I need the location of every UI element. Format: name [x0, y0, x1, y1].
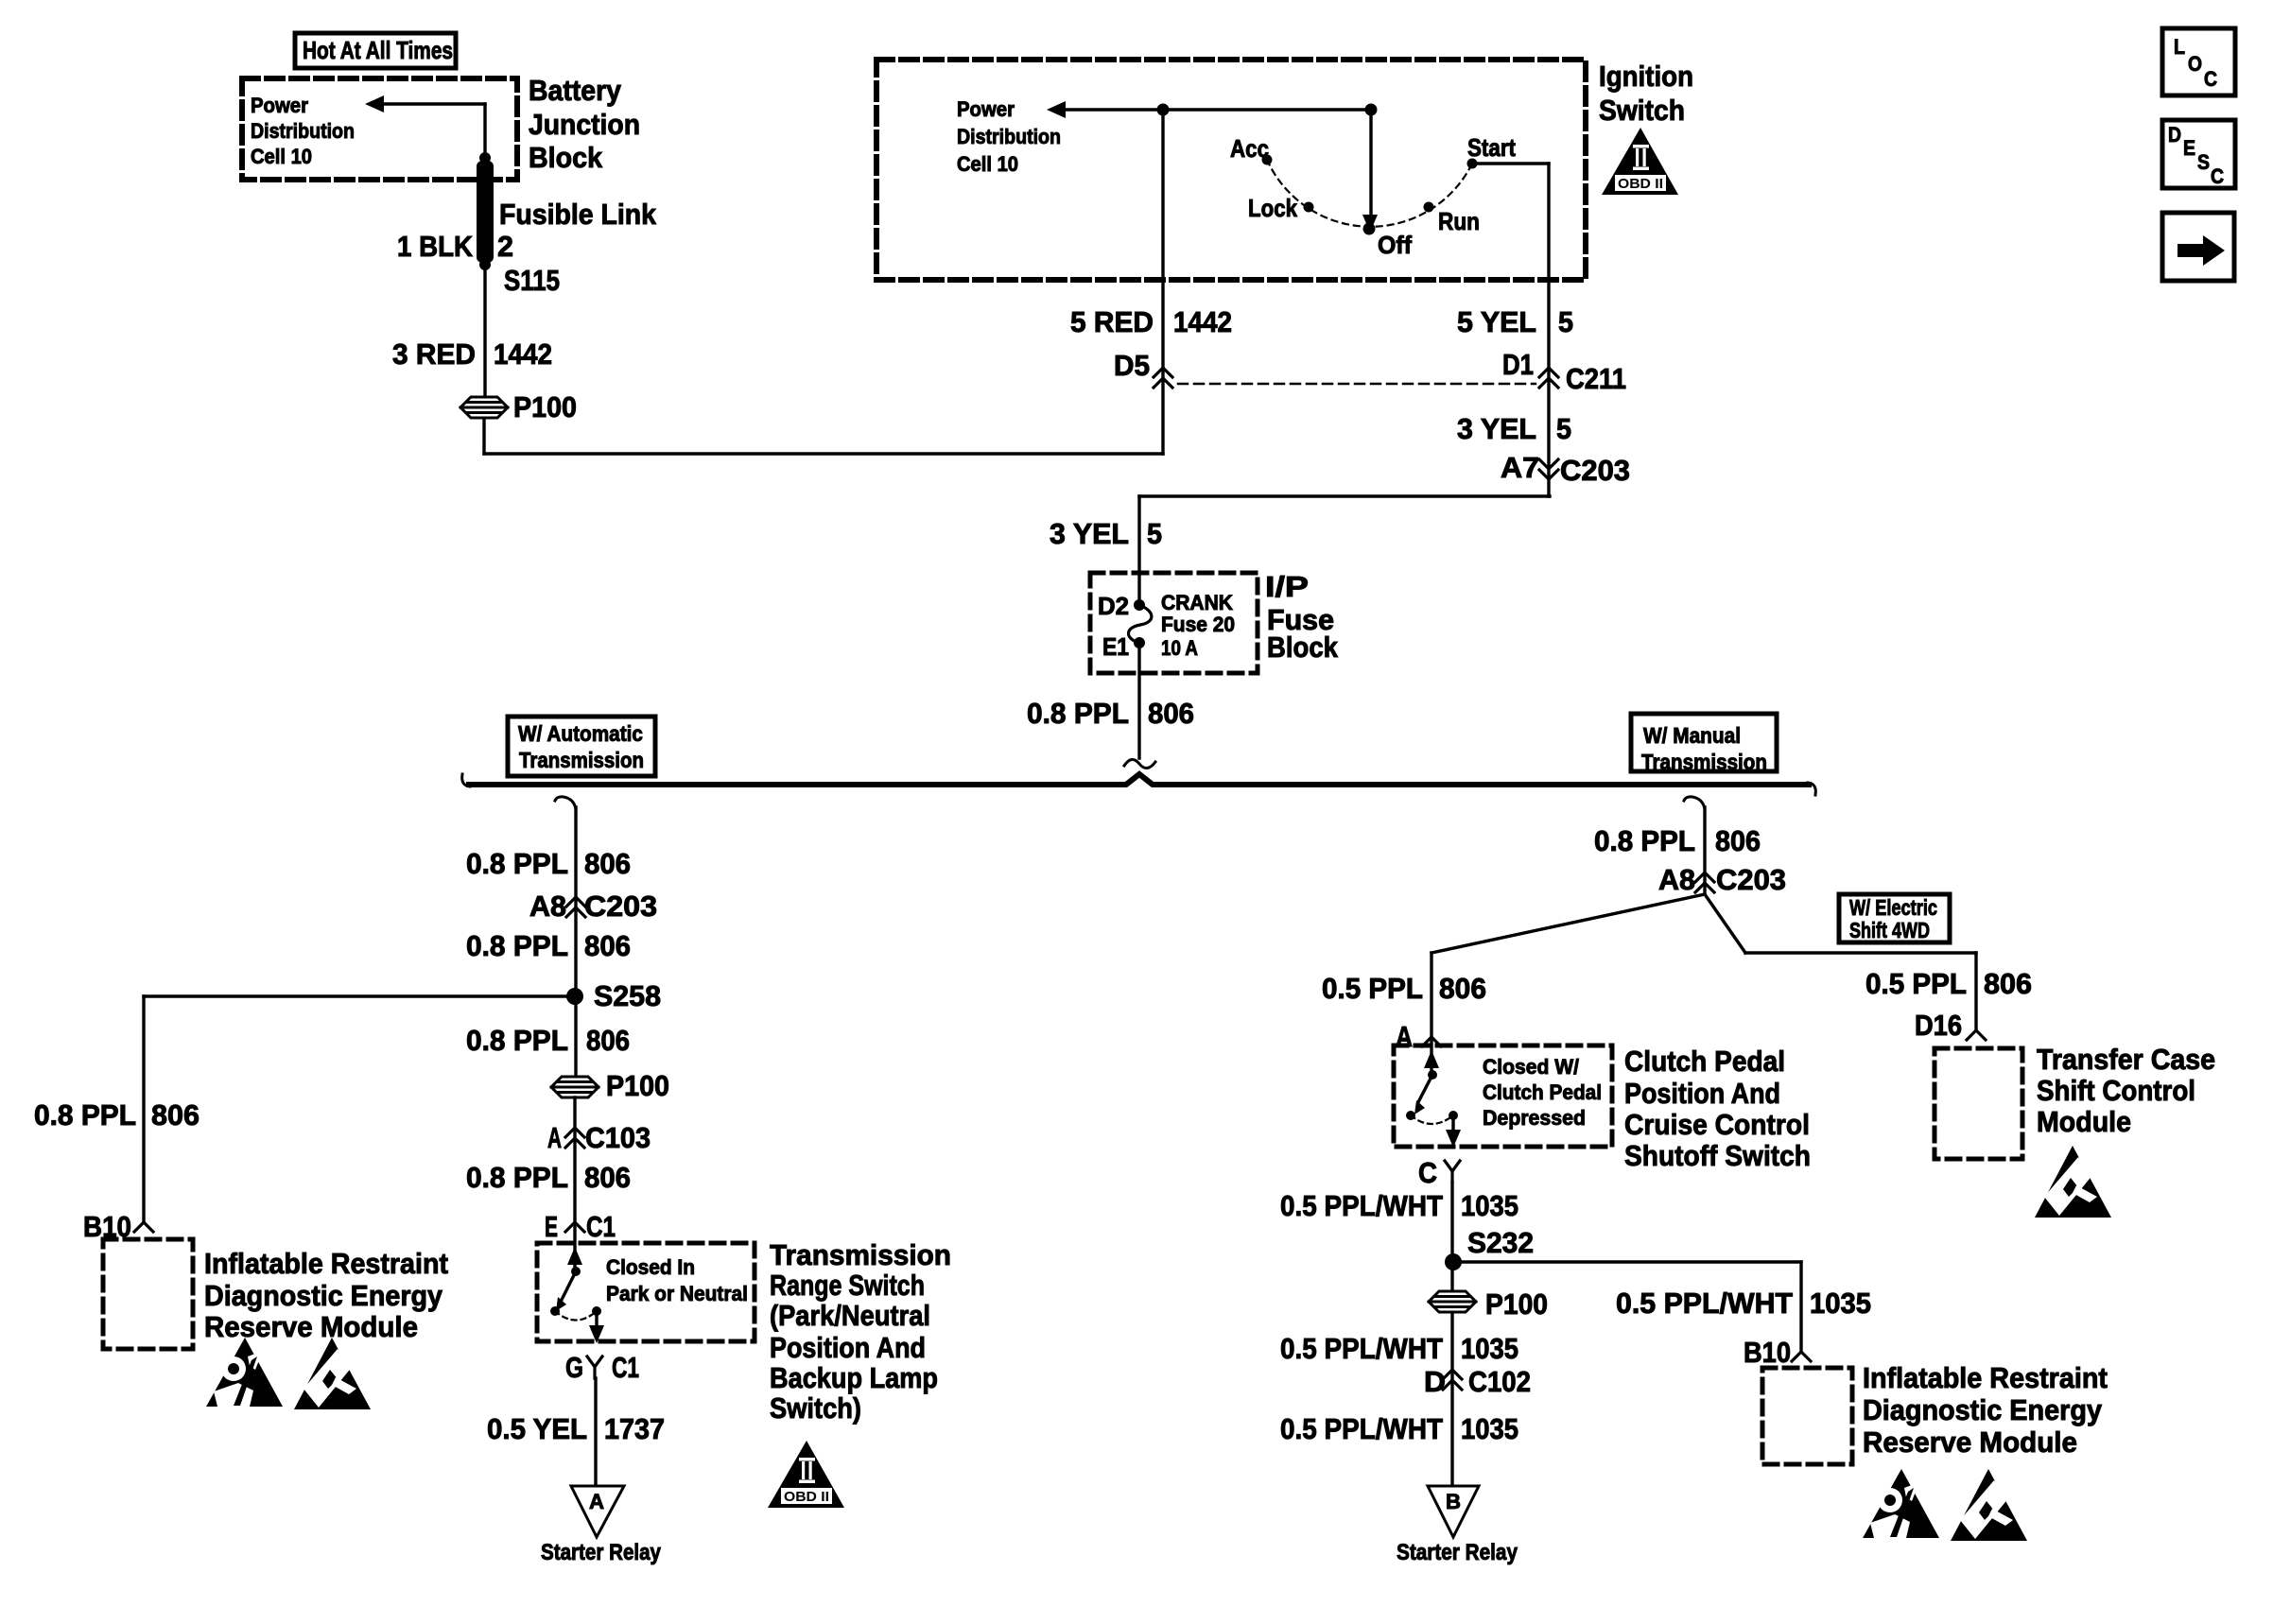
- svg-text:A: A: [547, 1121, 562, 1154]
- svg-text:Starter Relay: Starter Relay: [1397, 1540, 1518, 1565]
- svg-text:Inflatable Restraint: Inflatable Restraint: [1863, 1361, 2108, 1394]
- svg-text:806: 806: [584, 847, 631, 880]
- svg-text:Power: Power: [251, 94, 308, 117]
- svg-text:C1: C1: [612, 1351, 639, 1384]
- svg-text:Clutch Pedal: Clutch Pedal: [1483, 1080, 1602, 1104]
- svg-text:0.5 PPL/WHT: 0.5 PPL/WHT: [1280, 1189, 1443, 1222]
- svg-text:I/P: I/P: [1265, 570, 1309, 603]
- svg-text:C203: C203: [1560, 454, 1630, 487]
- svg-text:1442: 1442: [1173, 305, 1232, 338]
- svg-text:C203: C203: [584, 890, 657, 923]
- svg-text:Run: Run: [1438, 207, 1480, 235]
- svg-text:S258: S258: [594, 979, 661, 1012]
- svg-text:Hot At All Times: Hot At All Times: [303, 36, 453, 64]
- svg-text:806: 806: [1984, 967, 2032, 1000]
- svg-text:5: 5: [1147, 517, 1162, 550]
- svg-text:E: E: [2183, 136, 2195, 160]
- svg-text:G: G: [565, 1351, 583, 1384]
- svg-text:0.8 PPL: 0.8 PPL: [466, 1024, 568, 1057]
- svg-text:1035: 1035: [1461, 1412, 1518, 1445]
- svg-text:W/ Electric: W/ Electric: [1849, 895, 1937, 920]
- svg-text:Transmission: Transmission: [1641, 750, 1767, 774]
- svg-text:Switch): Switch): [770, 1391, 861, 1425]
- svg-text:Distribution: Distribution: [251, 119, 355, 143]
- svg-text:3 YEL: 3 YEL: [1050, 517, 1129, 550]
- svg-text:B10: B10: [1744, 1336, 1791, 1369]
- svg-text:0.5 PPL: 0.5 PPL: [1865, 967, 1967, 1000]
- svg-text:5 YEL: 5 YEL: [1457, 305, 1536, 338]
- svg-text:Fuse 20: Fuse 20: [1161, 613, 1235, 636]
- svg-text:0.5 YEL: 0.5 YEL: [487, 1412, 587, 1445]
- svg-text:W/ Automatic: W/ Automatic: [518, 721, 643, 746]
- svg-text:Clutch Pedal: Clutch Pedal: [1624, 1045, 1785, 1078]
- svg-text:C1: C1: [586, 1210, 616, 1243]
- svg-text:Position And: Position And: [770, 1331, 926, 1364]
- svg-text:0.5 PPL/WHT: 0.5 PPL/WHT: [1616, 1287, 1793, 1320]
- svg-text:D: D: [2168, 123, 2181, 147]
- svg-text:E: E: [545, 1210, 558, 1243]
- svg-text:5: 5: [1558, 305, 1573, 338]
- svg-text:Cruise Control: Cruise Control: [1624, 1108, 1810, 1141]
- svg-text:D1: D1: [1502, 348, 1534, 381]
- svg-text:L: L: [2174, 35, 2185, 59]
- svg-text:3 YEL: 3 YEL: [1457, 412, 1536, 445]
- svg-text:D: D: [1424, 1365, 1446, 1398]
- svg-text:A: A: [1396, 1020, 1413, 1053]
- svg-text:Battery: Battery: [529, 74, 622, 107]
- svg-text:806: 806: [1715, 824, 1761, 857]
- svg-text:Lock: Lock: [1248, 194, 1297, 222]
- svg-text:E1: E1: [1102, 632, 1129, 661]
- svg-text:C: C: [2211, 164, 2224, 188]
- svg-text:5 RED: 5 RED: [1070, 305, 1154, 338]
- svg-text:10 A: 10 A: [1161, 636, 1198, 660]
- svg-text:0.8 PPL: 0.8 PPL: [466, 847, 568, 880]
- svg-text:2: 2: [497, 230, 513, 263]
- svg-text:(Park/Neutral: (Park/Neutral: [770, 1299, 930, 1332]
- svg-text:Park or Neutral: Park or Neutral: [606, 1282, 748, 1305]
- svg-text:C203: C203: [1716, 863, 1786, 896]
- svg-text:A8: A8: [529, 890, 566, 923]
- svg-text:Depressed: Depressed: [1483, 1106, 1586, 1130]
- svg-text:Inflatable Restraint: Inflatable Restraint: [204, 1247, 448, 1280]
- svg-text:Range Switch: Range Switch: [770, 1269, 925, 1302]
- svg-text:1737: 1737: [604, 1412, 665, 1445]
- svg-text:806: 806: [151, 1098, 200, 1132]
- svg-text:806: 806: [1439, 972, 1486, 1005]
- svg-text:Closed In: Closed In: [606, 1255, 695, 1279]
- svg-text:Transfer Case: Transfer Case: [2037, 1043, 2215, 1076]
- svg-text:O: O: [2188, 52, 2202, 76]
- svg-text:0.5 PPL: 0.5 PPL: [1322, 972, 1423, 1005]
- svg-text:806: 806: [1148, 697, 1194, 730]
- svg-text:Transmission: Transmission: [519, 748, 644, 772]
- svg-text:806: 806: [584, 929, 631, 962]
- svg-text:Module: Module: [2037, 1105, 2131, 1138]
- svg-text:Block: Block: [1267, 631, 1339, 664]
- svg-text:3 RED: 3 RED: [392, 337, 476, 371]
- svg-text:Backup Lamp: Backup Lamp: [770, 1361, 938, 1394]
- svg-text:Closed W/: Closed W/: [1483, 1055, 1579, 1079]
- svg-text:S: S: [2197, 150, 2210, 174]
- svg-text:1035: 1035: [1461, 1332, 1518, 1365]
- svg-text:Acc: Acc: [1230, 134, 1269, 163]
- svg-text:Fusible Link: Fusible Link: [499, 198, 657, 231]
- svg-text:P100: P100: [606, 1069, 669, 1102]
- svg-text:S232: S232: [1467, 1226, 1534, 1259]
- svg-text:S115: S115: [504, 264, 560, 297]
- svg-text:D16: D16: [1915, 1009, 1962, 1042]
- svg-text:Starter Relay: Starter Relay: [541, 1540, 662, 1565]
- svg-text:Reserve Module: Reserve Module: [1863, 1425, 2077, 1459]
- svg-text:0.5 PPL/WHT: 0.5 PPL/WHT: [1280, 1412, 1443, 1445]
- svg-text:Start: Start: [1467, 133, 1516, 162]
- svg-text:C: C: [2204, 67, 2217, 91]
- svg-text:806: 806: [586, 1024, 630, 1057]
- svg-text:0.8 PPL: 0.8 PPL: [34, 1098, 136, 1132]
- svg-text:C102: C102: [1468, 1365, 1531, 1398]
- svg-text:Reserve Module: Reserve Module: [204, 1310, 418, 1343]
- svg-text:Junction: Junction: [529, 108, 640, 141]
- svg-text:806: 806: [584, 1161, 631, 1194]
- svg-text:0.8 PPL: 0.8 PPL: [1594, 824, 1695, 857]
- svg-text:Shift 4WD: Shift 4WD: [1849, 918, 1930, 942]
- svg-text:Power: Power: [957, 97, 1015, 121]
- svg-text:Transmission: Transmission: [770, 1238, 951, 1271]
- svg-text:D5: D5: [1114, 349, 1150, 382]
- svg-text:0.8 PPL: 0.8 PPL: [466, 929, 568, 962]
- svg-text:1442: 1442: [494, 337, 552, 371]
- svg-text:Cell 10: Cell 10: [251, 145, 312, 168]
- svg-text:1035: 1035: [1810, 1287, 1871, 1320]
- svg-text:Off: Off: [1378, 231, 1412, 259]
- svg-text:0.5 PPL/WHT: 0.5 PPL/WHT: [1280, 1332, 1443, 1365]
- svg-text:Ignition: Ignition: [1599, 60, 1693, 93]
- svg-text:Shutoff Switch: Shutoff Switch: [1624, 1139, 1811, 1172]
- svg-text:1 BLK: 1 BLK: [397, 230, 474, 263]
- svg-text:A: A: [589, 1490, 604, 1513]
- svg-text:A7: A7: [1501, 451, 1539, 484]
- svg-text:Diagnostic Energy: Diagnostic Energy: [1863, 1393, 2103, 1426]
- svg-text:1035: 1035: [1461, 1189, 1518, 1222]
- svg-text:CRANK: CRANK: [1161, 591, 1233, 614]
- svg-text:0.8 PPL: 0.8 PPL: [466, 1161, 568, 1194]
- svg-text:P100: P100: [513, 390, 577, 423]
- svg-text:C103: C103: [585, 1121, 651, 1154]
- svg-text:Block: Block: [529, 141, 603, 174]
- svg-text:0.8 PPL: 0.8 PPL: [1027, 697, 1129, 730]
- svg-text:Cell 10: Cell 10: [957, 152, 1018, 176]
- svg-text:Shift Control: Shift Control: [2037, 1074, 2195, 1107]
- svg-text:P100: P100: [1485, 1287, 1548, 1321]
- svg-text:C: C: [1418, 1156, 1437, 1189]
- svg-text:C211: C211: [1566, 362, 1626, 395]
- svg-text:B: B: [1446, 1490, 1461, 1513]
- svg-text:D2: D2: [1098, 592, 1129, 620]
- svg-text:Distribution: Distribution: [957, 125, 1061, 148]
- svg-text:A8: A8: [1658, 863, 1695, 896]
- svg-text:Diagnostic Energy: Diagnostic Energy: [204, 1279, 443, 1312]
- svg-text:5: 5: [1556, 412, 1571, 445]
- svg-text:Position And: Position And: [1624, 1077, 1780, 1110]
- svg-text:W/ Manual: W/ Manual: [1643, 723, 1741, 748]
- svg-text:Switch: Switch: [1599, 94, 1685, 127]
